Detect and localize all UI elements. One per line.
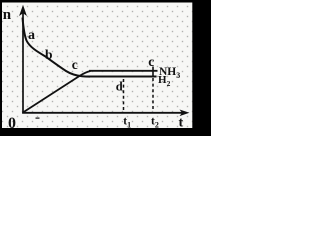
svg-text:t: t — [179, 116, 184, 131]
x-axis arrowhead — [180, 110, 190, 117]
y-axis — [22, 10, 24, 114]
svg-text:0: 0 — [8, 115, 16, 132]
frame border top — [0, 0, 211, 3]
stray scan mark near origin — [36, 117, 40, 119]
frame border left — [0, 0, 2, 136]
dashed vertical at t2 — [152, 78, 154, 112]
dotted paper background — [0, 0, 211, 136]
frame border right — [192, 0, 211, 136]
descending curve a/b (H2 consumption) — [23, 18, 91, 77]
svg-text:b: b — [45, 47, 53, 62]
dashed vertical at t1 — [123, 79, 125, 112]
svg-text:d: d — [116, 79, 123, 93]
frame border bottom — [0, 128, 211, 136]
bottom equilibrium line (H2) — [87, 76, 157, 78]
svg-text:c: c — [72, 57, 78, 72]
top equilibrium line (NH3) — [89, 70, 158, 72]
rising line from origin (NH3 formation) — [23, 71, 90, 112]
y-axis arrowhead — [19, 5, 27, 16]
svg-text:n: n — [3, 7, 12, 23]
svg-text:a: a — [28, 28, 35, 43]
tick at c/t2 on top line — [152, 67, 154, 76]
x-axis — [22, 112, 186, 114]
